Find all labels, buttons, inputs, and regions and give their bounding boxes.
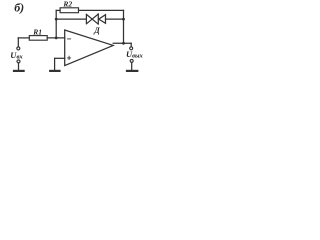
diode Д left element crossed triangle [86,14,98,23]
diode Д center bar [97,14,99,24]
lower-right terminal circle [130,59,133,62]
wire: input to R1 [18,37,29,39]
wire: left feedback vertical [55,10,57,38]
wire: lower-left ground stub [18,63,20,70]
lower-left terminal circle [17,60,20,63]
resistor R1 [29,36,47,41]
wire: lower-right ground stub [131,62,133,70]
svg-text:+: + [67,54,72,63]
wire: op-amp output [113,42,131,44]
wire: top feedback to R2 [56,9,60,11]
ground (input side) [14,70,24,72]
resistor R2 [60,8,78,13]
node: output junction [122,42,125,45]
diode Д right triangle [99,15,106,24]
output terminal circle [130,47,133,50]
wire: R2 to right vertical [79,9,124,11]
svg-text:R2: R2 [62,0,72,8]
svg-text:−: − [67,34,72,43]
wire: right feedback vertical [123,10,125,43]
node: right diode branch junction [122,18,125,21]
ground (output side) [127,70,137,72]
svg-text:R1: R1 [32,27,42,36]
ground (op-amp + input) [50,70,59,72]
op-amp U1 triangle [65,30,114,66]
input terminal circle [17,47,20,50]
wire: input terminal stub [17,38,19,47]
wire: diode branch right [106,18,124,20]
svg-text:б): б) [14,0,24,14]
wire: R1 to op-amp inverting input [47,37,64,39]
wire: diode branch left [56,18,86,20]
svg-text:Д: Д [93,26,100,35]
wire: non-inverting input [55,57,65,59]
node: left diode branch junction [55,18,58,21]
wire: output stub down [130,43,132,47]
node: inverting input junction [55,37,58,40]
wire: non-inverting ground vertical [54,58,56,70]
